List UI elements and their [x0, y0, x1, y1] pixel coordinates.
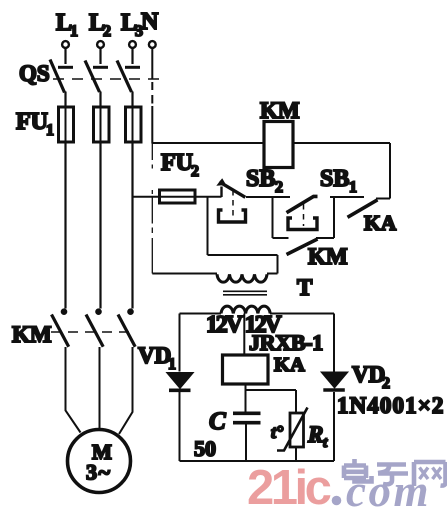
watermark com script — [346, 466, 431, 509]
wire L2 phase down — [99, 142, 101, 309]
transformer T — [217, 274, 312, 313]
wire N to transformer primary left — [152, 273, 217, 275]
svg-text:21ic: 21ic — [247, 461, 331, 509]
svg-text:KM: KM — [308, 244, 348, 269]
contactor main contacts KM — [12, 308, 136, 347]
thermistor Rt — [271, 408, 328, 462]
contactor coil KM — [152, 98, 390, 199]
svg-text:KA: KA — [364, 211, 397, 235]
wire L3 phase down — [131, 142, 133, 309]
svg-text:JRXB-1: JRXB-1 — [249, 330, 323, 355]
pushbutton SB2 (stop, NC) — [216, 166, 290, 222]
svg-text:QS: QS — [19, 61, 50, 86]
fuse FU2 — [133, 150, 222, 203]
wire KA coil to C/Rt node — [246, 384, 297, 413]
svg-text:50: 50 — [194, 436, 216, 461]
relay contact KA — [348, 199, 397, 236]
svg-text:SB: SB — [320, 166, 349, 192]
svg-text:t°: t° — [271, 422, 284, 442]
svg-text:1: 1 — [349, 179, 357, 196]
node L2 — [89, 10, 111, 48]
fuse FU1 — [16, 92, 141, 143]
wire to transformer primary right — [208, 197, 278, 274]
svg-text:1N4001×2: 1N4001×2 — [337, 393, 445, 418]
wire KM contacts to motor — [66, 347, 133, 434]
svg-text:1: 1 — [168, 356, 176, 373]
svg-text:2: 2 — [275, 179, 283, 196]
svg-text:VD: VD — [352, 362, 385, 387]
svg-text:KM: KM — [12, 322, 52, 347]
svg-text:SB: SB — [246, 166, 275, 192]
transformer center tap wire — [243, 314, 245, 356]
svg-text:2: 2 — [382, 375, 390, 392]
svg-text:1: 1 — [70, 23, 78, 40]
svg-text:FU: FU — [16, 109, 48, 135]
node N — [141, 9, 159, 48]
switch QS — [19, 48, 159, 92]
svg-text:N: N — [141, 9, 159, 35]
svg-text:FU: FU — [161, 150, 193, 176]
diode VD1 — [138, 343, 194, 390]
motor M — [68, 430, 131, 493]
svg-text:C: C — [209, 408, 226, 435]
svg-text:2: 2 — [191, 163, 199, 180]
watermark chinese 电子网 — [344, 459, 446, 486]
label 12V 12V — [206, 312, 282, 338]
node L3 — [121, 10, 143, 48]
diode VD2 — [321, 362, 445, 418]
svg-text:KM: KM — [260, 98, 300, 123]
watermark 21ic — [247, 461, 341, 509]
contactor aux contact KM (self holding) — [273, 197, 348, 269]
capacitor C — [194, 408, 261, 461]
node L1 — [56, 10, 78, 48]
svg-text:T: T — [297, 275, 312, 300]
svg-text:VD: VD — [138, 343, 171, 368]
relay box outline wires — [180, 314, 335, 462]
svg-text:1: 1 — [46, 122, 54, 139]
relay coil KA (JRXB-1) — [223, 330, 323, 384]
svg-text:KA: KA — [274, 354, 305, 376]
svg-text:R: R — [307, 422, 323, 447]
pushbutton SB1 (start, NO) — [287, 166, 365, 230]
svg-text:t: t — [323, 435, 328, 451]
wire N line — [151, 48, 153, 274]
wire L1 phase down — [64, 142, 66, 309]
svg-text:2: 2 — [103, 23, 111, 40]
svg-text:3~: 3~ — [86, 460, 111, 485]
svg-text:12V: 12V — [206, 312, 244, 338]
